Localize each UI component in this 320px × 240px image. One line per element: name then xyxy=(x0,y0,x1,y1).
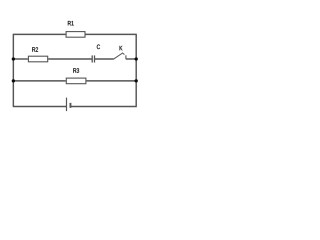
label R3 xyxy=(73,68,79,73)
resistor R2 xyxy=(28,56,47,62)
node junction branch2 right xyxy=(135,57,138,60)
wire branch2 segment R2 to capacitor xyxy=(48,58,92,60)
wire left vertical xyxy=(12,34,14,106)
wire branch3 right segment xyxy=(86,80,136,82)
label R2 xyxy=(32,47,38,51)
label C xyxy=(97,45,100,50)
capacitor C xyxy=(92,55,94,62)
battery long plate (positive) xyxy=(66,98,68,112)
wire top branch right segment xyxy=(86,33,137,35)
node junction branch3 right xyxy=(135,79,138,82)
wire top branch left segment xyxy=(13,33,66,35)
wire branch3 left segment xyxy=(13,80,65,82)
wire right vertical xyxy=(135,34,137,106)
switch K blade xyxy=(113,53,124,59)
wire bottom right segment xyxy=(70,106,136,108)
wire branch2 segment capacitor to switch pivot xyxy=(95,58,114,60)
battery short plate (negative) xyxy=(69,103,71,108)
wire branch2 segment switch contact to right xyxy=(126,58,136,60)
resistor R3 xyxy=(66,78,86,84)
wire branch2 segment left of R2 xyxy=(13,58,28,60)
node junction branch3 left xyxy=(12,79,15,82)
label K xyxy=(120,46,123,50)
wire bottom left segment xyxy=(13,106,66,108)
label R1 xyxy=(68,21,74,25)
node junction branch2 left xyxy=(12,57,15,60)
switch K fixed contact xyxy=(125,55,127,59)
resistor R1 xyxy=(66,32,85,38)
